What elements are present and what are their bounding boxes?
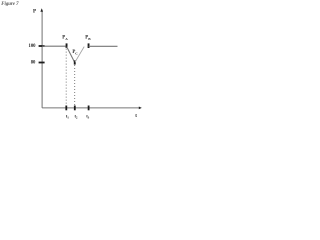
- point P_A marker: [66, 43, 68, 48]
- y-axis: [41, 10, 43, 108]
- x tick t1: [65, 106, 67, 111]
- label P_C: [72, 50, 78, 55]
- y tick 100: [39, 45, 45, 47]
- background: [0, 0, 143, 120]
- x tick label t1: [66, 113, 69, 119]
- label P_A: [62, 36, 68, 41]
- x tick label t2: [75, 113, 78, 119]
- x-axis arrowhead: [139, 107, 142, 110]
- svg-text:Figure 7: Figure 7: [1, 2, 19, 7]
- point P_B marker: [88, 43, 90, 48]
- price recovery diagonal P_C to P_B (faint): [75, 47, 84, 63]
- point P_C marker: [74, 60, 76, 64]
- y-axis arrowhead: [40, 8, 43, 12]
- dashed drop line at t2: [74, 65, 76, 106]
- svg-text:100: 100: [28, 44, 36, 49]
- x tick t2: [74, 106, 76, 111]
- price drop diagonal P_A to P_C: [67, 47, 75, 63]
- label P_B: [85, 36, 91, 41]
- dashed drop line at t1: [65, 49, 67, 106]
- x tick t3: [88, 106, 90, 111]
- x tick label t3: [86, 113, 89, 119]
- y tick 80: [39, 62, 45, 64]
- price line at 100 (right segment): [89, 45, 118, 47]
- price line at 100 (left segment): [42, 45, 66, 47]
- svg-text:80: 80: [31, 60, 36, 65]
- x-axis: [42, 107, 140, 109]
